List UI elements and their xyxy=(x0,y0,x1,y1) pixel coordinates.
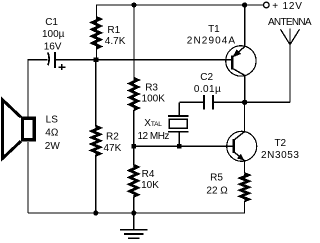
svg-text:R5: R5 xyxy=(210,173,223,184)
capacitor C1 curved plate xyxy=(48,53,49,66)
capacitor C1 straight plate xyxy=(54,52,56,68)
+12V terminal xyxy=(264,2,270,8)
svg-text:R2: R2 xyxy=(106,131,119,142)
svg-text:C2: C2 xyxy=(200,72,213,83)
svg-text:C1: C1 xyxy=(45,17,58,28)
wire C2 row xyxy=(179,101,204,103)
node top rail / T1 emitter junction xyxy=(242,2,247,7)
svg-text:T2: T2 xyxy=(274,138,286,149)
svg-text:16V: 16V xyxy=(44,42,62,53)
svg-text:R4: R4 xyxy=(142,169,155,180)
svg-text:LS: LS xyxy=(46,115,59,126)
svg-text:2N2904A: 2N2904A xyxy=(187,36,236,47)
capacitor C2 xyxy=(203,95,205,110)
ground xyxy=(133,213,135,230)
C1 plus sign xyxy=(59,66,66,68)
svg-text:2N3053: 2N3053 xyxy=(261,150,300,161)
svg-text:0.01µ: 0.01µ xyxy=(194,84,221,95)
svg-text:10K: 10K xyxy=(141,180,159,191)
resistor R2 xyxy=(95,60,97,127)
svg-text:4Ω: 4Ω xyxy=(45,128,59,139)
crystal X1 12MHz xyxy=(178,102,180,116)
wire C1 left xyxy=(28,60,47,117)
svg-text:12 MHz: 12 MHz xyxy=(137,131,169,142)
wire bottom ground rail xyxy=(28,201,245,213)
loudspeaker LS xyxy=(22,118,34,140)
svg-text:R1: R1 xyxy=(107,25,120,36)
resistor R1 xyxy=(92,17,100,48)
node C1/R1/R2 junction xyxy=(94,57,99,62)
svg-text:100K: 100K xyxy=(142,94,166,105)
wire C1 row to T1 base xyxy=(55,59,232,61)
antenna xyxy=(289,45,291,103)
svg-text:R3: R3 xyxy=(145,83,158,94)
wire top rail +12V xyxy=(97,5,264,60)
svg-text:4.7K: 4.7K xyxy=(105,36,126,47)
resistor R4 xyxy=(130,165,138,196)
transistor T1 2N2904A xyxy=(226,46,256,76)
resistor R3 xyxy=(133,5,135,78)
svg-text:ANTENNA: ANTENNA xyxy=(268,17,312,28)
svg-text:+ 12V: + 12V xyxy=(272,1,302,12)
resistor R5 xyxy=(241,174,249,201)
node rail/R2 xyxy=(93,210,98,215)
svg-text:T1: T1 xyxy=(208,24,220,35)
svg-text:47K: 47K xyxy=(104,143,122,154)
svg-text:22 Ω: 22 Ω xyxy=(206,186,228,197)
wire crystal node row to T2 base xyxy=(134,145,234,147)
svg-text:100µ: 100µ xyxy=(42,29,65,40)
svg-text:2W: 2W xyxy=(45,141,61,152)
node C2/T1 collector/T2 collector xyxy=(242,100,247,105)
node crystal bottom xyxy=(177,144,182,149)
wire speaker to ground rail xyxy=(27,142,29,213)
node R3/R4/base row xyxy=(132,144,137,149)
transistor T2 2N3053 xyxy=(227,131,257,161)
node top rail / R3 junction xyxy=(131,2,136,7)
node rail/R4/ground xyxy=(131,210,136,215)
